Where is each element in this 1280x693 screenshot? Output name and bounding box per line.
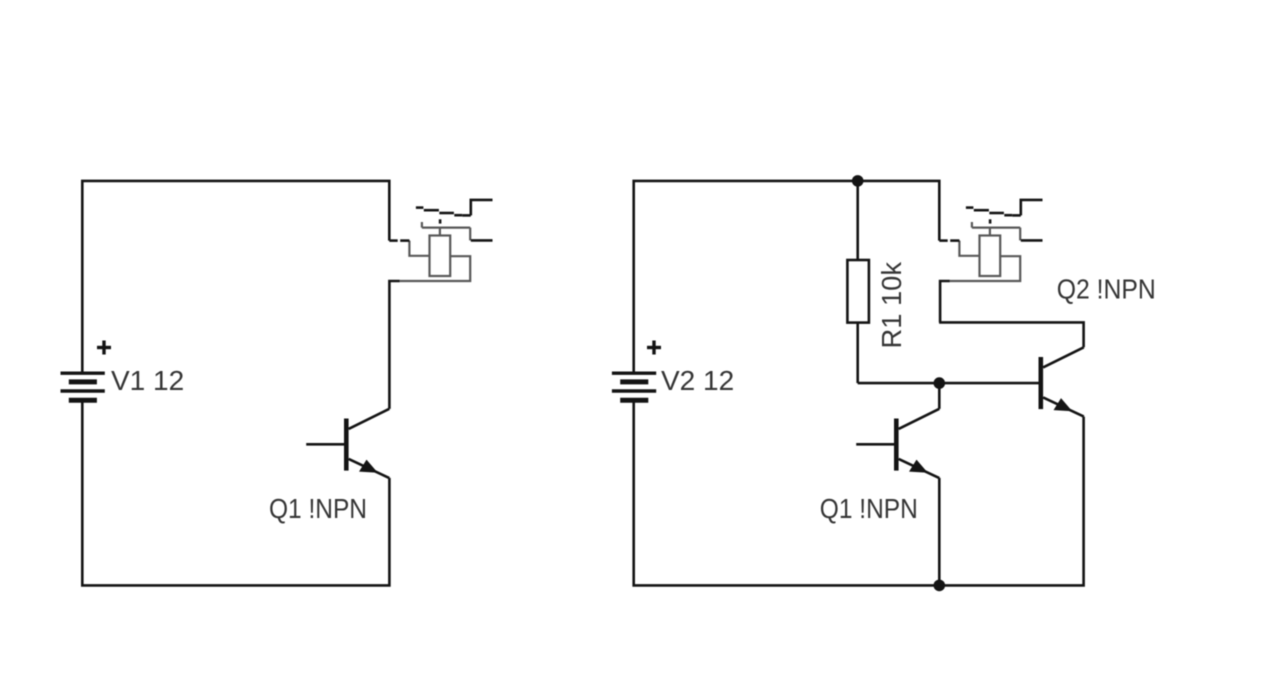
wire relay K2 coil bottom pin down and across to collector of Q2 <box>940 281 950 322</box>
junction node on bottom rail <box>934 580 946 592</box>
transistor Q1 (right) <box>856 409 939 478</box>
transistor Q2 <box>1039 347 1084 416</box>
plus polarity mark of V2 <box>647 341 661 355</box>
wire top-left loop: battery V1 plus terminal up, across top, down to relay <box>82 181 389 373</box>
svg-text:V2 12: V2 12 <box>661 365 734 396</box>
plus polarity mark of V1 <box>97 341 111 355</box>
relay K2 coil pin stubs (black) <box>939 239 959 242</box>
wire relay coil bottom pin to collector of Q1 <box>389 281 399 409</box>
relay K1 switch contact arm (dashed) <box>416 208 471 216</box>
svg-text:Q2 !NPN: Q2 !NPN <box>1057 274 1156 305</box>
resistor R1 <box>847 260 869 323</box>
relay K1 mechanical link dash <box>439 219 442 223</box>
relay K1 coil and armature (gray body) <box>400 222 470 281</box>
svg-text:V1 12: V1 12 <box>111 365 184 396</box>
wire battery V2 plus terminal up, across top, down to relay <box>634 181 940 373</box>
wire Q1 (right) emitter down to bottom rail <box>938 478 941 586</box>
wire Q1 (right) collector up to base rail <box>938 383 941 409</box>
relay K2 coil and armature (gray body) <box>950 222 1020 281</box>
relay K1 coil pin stubs (black) <box>389 239 409 242</box>
junction node on top rail <box>852 175 864 187</box>
wire base rail from R1 to base of Q2 <box>858 382 1039 385</box>
transistor Q1 (left) <box>306 409 389 478</box>
svg-text:R1 10k: R1 10k <box>876 261 907 348</box>
wire battery V2 minus terminal down and bottom rail to emitter of Q2 <box>634 402 1084 586</box>
svg-text:Q1 !NPN: Q1 !NPN <box>820 493 918 524</box>
battery V2 <box>612 373 656 400</box>
relay K1 switch terminals <box>471 200 493 241</box>
svg-text:Q1 !NPN: Q1 !NPN <box>269 493 367 524</box>
relay K2 switch terminals <box>1021 200 1043 241</box>
relay K2 mechanical link dash <box>989 219 992 223</box>
battery V1 <box>61 373 105 400</box>
junction node at base rail and Q1 collector <box>934 377 946 389</box>
wire battery V1 minus terminal down and bottom rail to emitter of Q1 <box>82 402 389 586</box>
wire resistor R1 bottom to base node <box>856 323 859 384</box>
relay K2 switch contact arm (dashed) <box>966 208 1021 216</box>
wire from top rail junction down to resistor R1 <box>856 181 859 260</box>
